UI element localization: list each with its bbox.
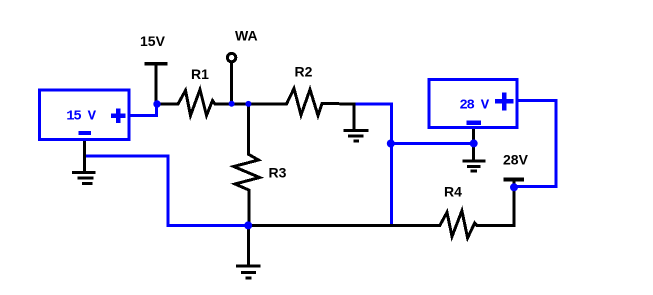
svg-text:R3: R3 xyxy=(269,165,287,181)
svg-text:R2: R2 xyxy=(295,64,313,80)
svg-text:28 V: 28 V xyxy=(459,97,489,113)
svg-text:15 V: 15 V xyxy=(66,108,96,124)
svg-text:R1: R1 xyxy=(191,66,209,82)
svg-text:R4: R4 xyxy=(444,184,462,200)
svg-text:WA: WA xyxy=(235,28,258,44)
svg-text:15V: 15V xyxy=(140,33,166,49)
svg-text:28V: 28V xyxy=(503,152,529,168)
